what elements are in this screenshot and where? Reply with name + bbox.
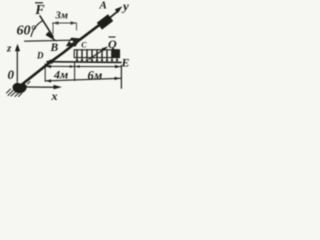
svg-text:4м: 4м	[53, 68, 68, 82]
svg-text:C: C	[81, 41, 87, 50]
svg-text:A: A	[99, 0, 107, 12]
svg-text:0: 0	[8, 67, 15, 82]
svg-text:E: E	[121, 56, 130, 70]
svg-text:60°: 60°	[17, 24, 37, 39]
svg-text:F: F	[34, 3, 45, 18]
svg-text:B: B	[50, 42, 59, 54]
svg-text:Q: Q	[108, 37, 117, 51]
svg-text:z: z	[6, 43, 12, 55]
svg-text:3м: 3м	[55, 11, 68, 22]
svg-text:6м: 6м	[88, 69, 103, 83]
svg-text:D: D	[36, 51, 44, 61]
svg-text:x: x	[51, 89, 58, 102]
svg-text:y: y	[121, 0, 129, 14]
